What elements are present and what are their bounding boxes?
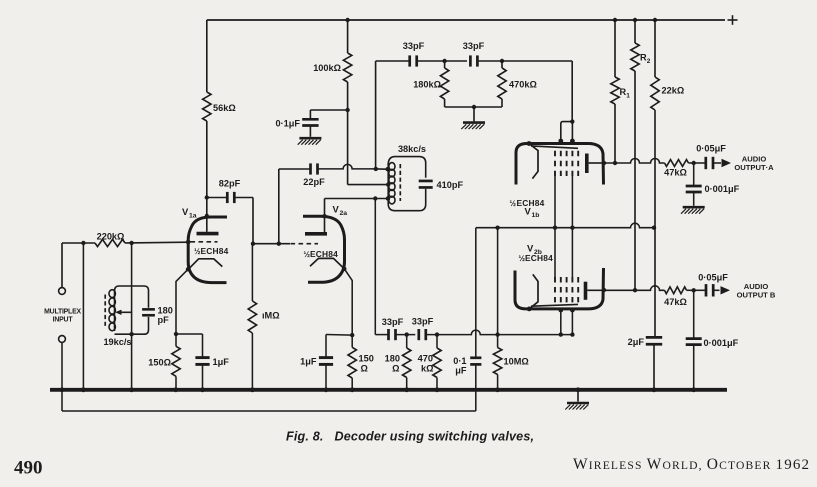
svg-text:180kΩ: 180kΩ — [413, 80, 441, 90]
svg-text:100kΩ: 100kΩ — [313, 63, 341, 73]
svg-text:INPUT: INPUT — [53, 316, 74, 323]
svg-text:V: V — [333, 204, 340, 215]
svg-text:410pF: 410pF — [437, 180, 464, 190]
svg-text:0·001μF: 0·001μF — [705, 184, 740, 194]
svg-text:Ω: Ω — [361, 364, 368, 374]
svg-text:OUTPUT B: OUTPUT B — [737, 290, 776, 299]
svg-text:33pF: 33pF — [463, 41, 485, 51]
svg-text:180: 180 — [385, 354, 400, 364]
svg-text:82pF: 82pF — [219, 179, 241, 189]
svg-text:2μF: 2μF — [628, 337, 645, 347]
svg-text:μF: μF — [455, 366, 467, 376]
svg-text:150: 150 — [359, 354, 374, 364]
svg-text:ECH84: ECH84 — [201, 246, 229, 256]
svg-text:0·05μF: 0·05μF — [696, 144, 726, 154]
svg-text:47kΩ: 47kΩ — [664, 297, 687, 307]
svg-text:0·1: 0·1 — [453, 356, 466, 366]
svg-text:ıMΩ: ıMΩ — [262, 311, 280, 321]
svg-text:pF: pF — [158, 315, 170, 325]
svg-text:Ω: Ω — [392, 364, 399, 374]
svg-text:1μF: 1μF — [213, 357, 230, 367]
svg-text:2: 2 — [647, 58, 651, 65]
svg-text:47kΩ: 47kΩ — [664, 168, 687, 178]
svg-text:2a: 2a — [340, 210, 348, 217]
svg-text:1: 1 — [626, 93, 630, 100]
svg-text:ECH84: ECH84 — [310, 249, 338, 259]
svg-text:V: V — [182, 206, 189, 217]
svg-text:490: 490 — [14, 458, 43, 479]
svg-text:33pF: 33pF — [412, 317, 434, 327]
svg-text:22pF: 22pF — [303, 177, 325, 187]
svg-text:OUTPUT·A: OUTPUT·A — [734, 163, 774, 172]
svg-text:kΩ: kΩ — [421, 364, 433, 374]
svg-text:WIRELESS WORLD, OCTOBER 1962: WIRELESS WORLD, OCTOBER 1962 — [573, 456, 809, 473]
svg-text:1μF: 1μF — [300, 357, 317, 367]
svg-text:470kΩ: 470kΩ — [509, 80, 537, 90]
svg-text:470: 470 — [418, 354, 433, 364]
svg-text:220kΩ: 220kΩ — [97, 232, 125, 242]
svg-text:22kΩ: 22kΩ — [662, 86, 685, 96]
svg-text:19kc/s: 19kc/s — [103, 337, 131, 347]
svg-text:1b: 1b — [532, 212, 540, 219]
svg-text:33pF: 33pF — [403, 41, 425, 51]
svg-text:180: 180 — [158, 306, 173, 316]
svg-text:V: V — [525, 206, 532, 217]
svg-text:10MΩ: 10MΩ — [504, 357, 529, 367]
svg-text:½: ½ — [510, 199, 517, 208]
svg-text:ECH84: ECH84 — [525, 253, 553, 263]
svg-text:MULTIPLEX: MULTIPLEX — [44, 309, 81, 316]
svg-text:150Ω: 150Ω — [148, 358, 171, 368]
svg-text:0·05μF: 0·05μF — [698, 273, 728, 283]
svg-text:38kc/s: 38kc/s — [398, 144, 426, 154]
svg-text:0·001μF: 0·001μF — [704, 338, 739, 348]
svg-text:Fig. 8. Decoder using switch: Fig. 8. Decoder using switching valves, — [286, 430, 534, 444]
svg-text:0·1μF: 0·1μF — [275, 119, 300, 129]
svg-text:1a: 1a — [189, 212, 197, 219]
svg-text:56kΩ: 56kΩ — [213, 103, 236, 113]
svg-text:33pF: 33pF — [382, 317, 404, 327]
